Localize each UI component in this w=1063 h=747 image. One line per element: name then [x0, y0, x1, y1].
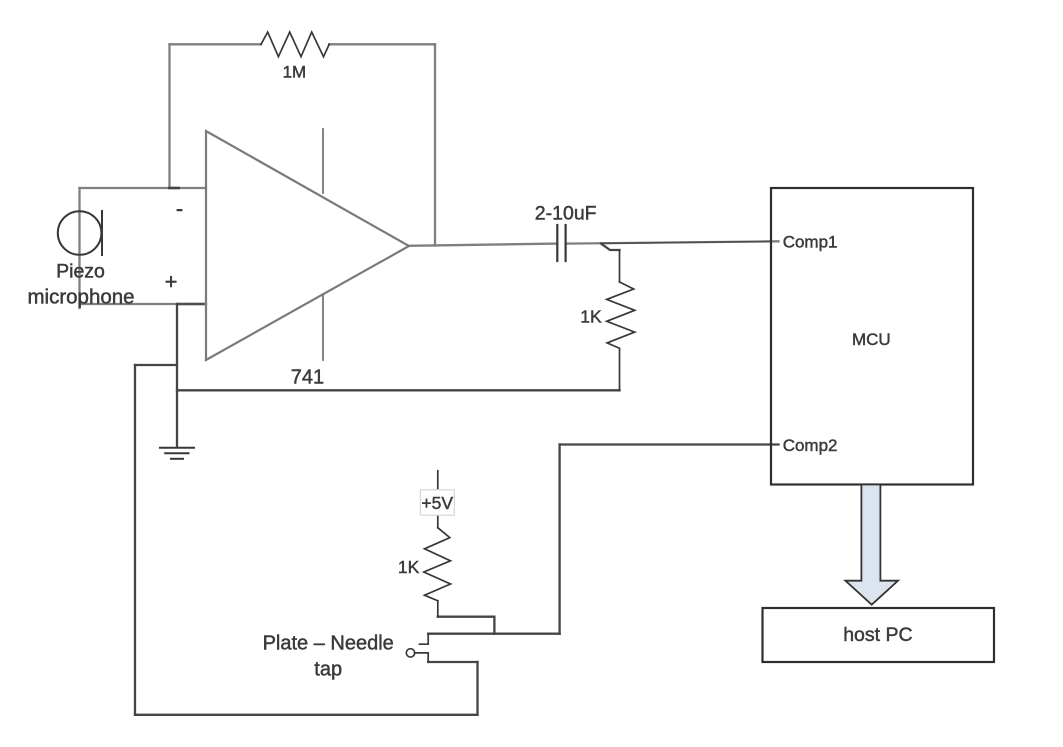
wire switch bottom horizontal	[428, 661, 477, 663]
capacitor C1 right plate	[564, 225, 566, 261]
label Plate Needle tap	[263, 633, 394, 681]
svg-text:1K: 1K	[580, 307, 602, 327]
svg-text:1K: 1K	[398, 557, 420, 577]
switch pole circle	[406, 649, 414, 657]
resistor R2 1K top lead	[619, 250, 621, 282]
light gray connector wires (top section)	[80, 44, 779, 308]
svg-text:Comp2: Comp2	[783, 436, 838, 455]
wire resistor R3 to switch node jog	[438, 617, 495, 634]
wire junction to resistor top	[601, 244, 620, 250]
wire ground stem	[176, 304, 178, 447]
op-amp U1 741 triangle	[206, 131, 409, 360]
svg-text:2-10uF: 2-10uF	[535, 202, 597, 224]
svg-text:host PC: host PC	[843, 624, 912, 646]
wire output to capacitor	[409, 244, 557, 246]
host PC block	[763, 608, 995, 662]
wire to Comp2	[560, 443, 779, 445]
wire noninverting input	[80, 303, 207, 305]
+5V label box	[420, 490, 454, 515]
svg-text:+5V: +5V	[421, 493, 453, 513]
wire feedback left vertical	[168, 44, 170, 188]
switch fixed contact hook	[420, 634, 429, 645]
ground symbol	[160, 448, 194, 459]
svg-text:Piezo: Piezo	[56, 261, 105, 283]
piezo microphone plate bar	[101, 211, 103, 255]
wire capacitor to Comp1	[566, 241, 779, 243]
resistor R2 1K zigzag	[607, 282, 635, 348]
label Piezo microphone	[27, 261, 134, 309]
wire left long vertical	[134, 365, 136, 715]
svg-text:1M: 1M	[283, 63, 307, 82]
svg-text:Plate – Needle: Plate – Needle	[263, 633, 394, 655]
MCU block	[771, 188, 973, 485]
arrow MCU to host PC	[845, 485, 898, 605]
wire feedback top right	[329, 43, 435, 45]
op-amp power pins	[322, 129, 324, 360]
svg-text:+: +	[165, 269, 178, 294]
wire Comp2 riser	[558, 445, 560, 634]
switch pole wire	[415, 653, 429, 662]
wire left branch	[135, 364, 177, 366]
resistor R3 bottom lead	[437, 601, 439, 617]
wire inverting input	[80, 187, 207, 189]
wire feedback top left	[170, 43, 262, 45]
mid gray connector wires (bottom section)	[135, 244, 779, 715]
svg-text:microphone: microphone	[27, 286, 134, 309]
svg-text:tap: tap	[314, 659, 342, 681]
capacitor C1 left plate	[556, 225, 558, 261]
wire bottom long horizontal	[135, 714, 478, 716]
wire bottom return	[177, 389, 620, 391]
wire switch node horizontal	[428, 633, 559, 635]
svg-text:MCU: MCU	[852, 330, 891, 349]
svg-text:-: -	[176, 196, 183, 221]
wire switch right vertical	[476, 662, 478, 715]
wire feedback right vertical	[434, 44, 436, 245]
wire +5V to resistor	[437, 515, 439, 527]
piezo microphone circle	[58, 211, 102, 255]
svg-text:741: 741	[291, 367, 324, 389]
wire overlay dark segment noninverting input joint	[176, 303, 205, 305]
wire piezo vertical	[78, 188, 80, 308]
resistor R3 1K pullup zigzag	[424, 528, 451, 601]
dark component symbols	[58, 32, 635, 662]
svg-text:Comp1: Comp1	[783, 232, 838, 251]
wire overlay dark segment inverting input joint	[168, 187, 180, 190]
+5V supply stub	[437, 471, 439, 489]
resistor R2 1K bottom lead	[619, 348, 621, 390]
resistor R1 1M	[261, 32, 329, 57]
wire overlay dark segment junction to Comp1	[601, 241, 771, 243]
